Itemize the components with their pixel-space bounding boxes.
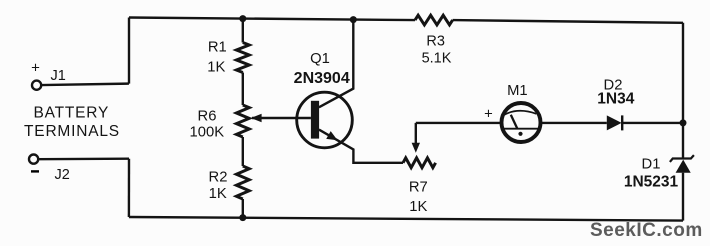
wire collector xyxy=(319,20,353,108)
node D2 cathode xyxy=(680,119,687,126)
wire to meter plus xyxy=(416,122,502,124)
svg-text:BATTERY: BATTERY xyxy=(33,105,109,122)
terminal J1 xyxy=(32,81,41,90)
wire chain top xyxy=(242,19,244,43)
node R2 bottom xyxy=(239,214,246,221)
svg-text:1N34: 1N34 xyxy=(597,90,634,107)
arrow R7 wiper xyxy=(412,143,420,153)
arrow R6 wiper xyxy=(251,114,262,122)
arrow Q1 emitter xyxy=(326,131,337,140)
wire J1 lead xyxy=(41,84,129,86)
wire chain bottom xyxy=(242,199,244,218)
svg-text:R3: R3 xyxy=(426,33,445,49)
meter M1 scale chord xyxy=(504,128,539,130)
wire right rail to zener xyxy=(682,123,684,159)
svg-text:1K: 1K xyxy=(209,186,227,202)
svg-text:R6: R6 xyxy=(198,108,217,124)
meter M1 needle xyxy=(511,115,518,129)
svg-text:Q1: Q1 xyxy=(310,51,330,67)
potentiometer R6 xyxy=(236,105,249,137)
wire D2 to right rail xyxy=(622,122,683,124)
svg-text:M1: M1 xyxy=(507,83,528,99)
node R1 top xyxy=(239,15,246,22)
zener D1 xyxy=(676,160,691,173)
transistor Q1 base bar xyxy=(311,101,319,139)
node Q1 collector xyxy=(350,16,357,23)
svg-text:J2: J2 xyxy=(55,167,70,183)
label J2 minus xyxy=(31,170,39,172)
wire R6 to R2 xyxy=(242,137,244,166)
wire R7 wiper xyxy=(415,123,417,147)
resistor R3 xyxy=(415,15,453,25)
wire J2 lead xyxy=(38,157,129,160)
svg-text:+: + xyxy=(31,59,40,76)
wire R1 to R6 xyxy=(242,73,244,106)
svg-text:100K: 100K xyxy=(190,125,225,141)
meter M1 pivot dot xyxy=(518,132,522,136)
svg-text:1N5231: 1N5231 xyxy=(624,174,679,191)
wire top rail right segment xyxy=(453,20,683,23)
svg-text:1K: 1K xyxy=(207,59,225,75)
svg-text:R2: R2 xyxy=(209,169,228,185)
transistor Q1 xyxy=(297,92,353,148)
wire left rail upper xyxy=(128,18,130,84)
wire meter to D2 xyxy=(539,122,607,124)
svg-text:R7: R7 xyxy=(409,179,428,195)
wire right rail upper xyxy=(682,23,684,123)
wire top rail left segment xyxy=(129,18,415,21)
diode D2 xyxy=(607,115,622,130)
potentiometer R7 xyxy=(403,158,436,168)
svg-text:R1: R1 xyxy=(208,40,227,56)
svg-text:D1: D1 xyxy=(642,157,661,173)
svg-text:+: + xyxy=(484,107,493,123)
meter M1 xyxy=(502,103,541,142)
svg-text:1K: 1K xyxy=(409,199,427,215)
svg-text:J1: J1 xyxy=(51,68,66,84)
svg-text:5.1K: 5.1K xyxy=(422,51,452,67)
svg-text:2N3904: 2N3904 xyxy=(294,70,350,87)
wire emitter xyxy=(319,130,403,163)
wire R6 wiper to base xyxy=(252,117,311,119)
svg-text:SeekIC.com: SeekIC.com xyxy=(590,220,703,241)
wire bottom rail xyxy=(129,217,683,221)
terminal J2 xyxy=(29,155,38,164)
resistor R1 xyxy=(236,43,249,73)
zener D1 cathode bar xyxy=(670,155,694,162)
meter M1 scale arc xyxy=(504,111,536,115)
svg-text:TERMINALS: TERMINALS xyxy=(24,123,120,140)
wire zener to bottom rail xyxy=(682,173,684,221)
resistor R2 xyxy=(236,166,249,199)
diode D2 cathode bar xyxy=(621,115,623,130)
wire left rail lower xyxy=(128,159,131,217)
